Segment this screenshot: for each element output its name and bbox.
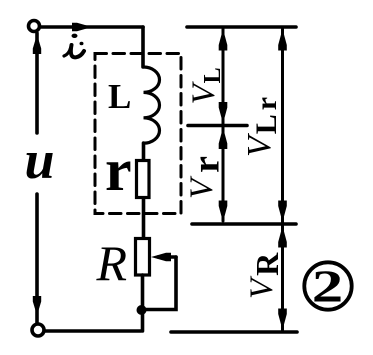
wire left vertical (upper) bbox=[35, 33, 39, 133]
figure number circle bbox=[304, 262, 351, 309]
svg-text:L: L bbox=[108, 77, 131, 116]
wire R bottom lead bbox=[141, 275, 145, 331]
current arrow i bbox=[72, 23, 92, 31]
arrow down VLr bottom bbox=[278, 201, 287, 223]
svg-text:VR: VR bbox=[244, 252, 285, 299]
arrow down on left wire bbox=[33, 296, 41, 316]
svg-text:R: R bbox=[96, 235, 128, 291]
terminal (bottom-left) bbox=[32, 324, 44, 336]
resistor r bbox=[137, 161, 150, 198]
reference line bottom bbox=[171, 330, 297, 334]
reference line middle (L/r boundary) bbox=[188, 124, 247, 128]
arrow down VL bottom bbox=[219, 102, 228, 124]
reference line top bbox=[187, 25, 296, 29]
wire left vertical (lower) bbox=[35, 194, 39, 323]
svg-text:r: r bbox=[105, 137, 132, 203]
wire bottom horizontal bbox=[45, 329, 141, 333]
label i bbox=[64, 34, 84, 58]
wire coil to r bbox=[142, 143, 146, 160]
arrow up VR top bbox=[278, 226, 287, 248]
arrow up at top of VL bbox=[219, 29, 228, 51]
arrow down Vr bottom bbox=[219, 201, 228, 223]
wire r to R bbox=[142, 198, 146, 238]
svg-text:2: 2 bbox=[312, 261, 344, 311]
wire wiper loop bbox=[142, 257, 176, 310]
terminal (top-left) bbox=[29, 21, 40, 32]
dimension line 1 (VL / Vr) bbox=[222, 29, 225, 221]
wiper arrow of potentiometer R bbox=[158, 255, 176, 259]
reference line second (r/R boundary) bbox=[192, 222, 296, 226]
wire top horizontal bbox=[41, 25, 143, 29]
arrow up on left wire bbox=[33, 35, 41, 55]
arrow up at top of VLr bbox=[278, 29, 287, 51]
resistor R bbox=[136, 239, 150, 276]
arrow down VR bottom bbox=[278, 309, 287, 331]
inductor L bbox=[144, 67, 160, 143]
dimension line 2 (VLr / VR) bbox=[281, 29, 284, 330]
arrow up Vr top bbox=[219, 128, 228, 150]
dashed box bbox=[95, 54, 181, 214]
junction dot bbox=[137, 305, 147, 315]
wire top right corner down to coil bbox=[141, 27, 145, 67]
svg-text:u: u bbox=[25, 130, 55, 190]
